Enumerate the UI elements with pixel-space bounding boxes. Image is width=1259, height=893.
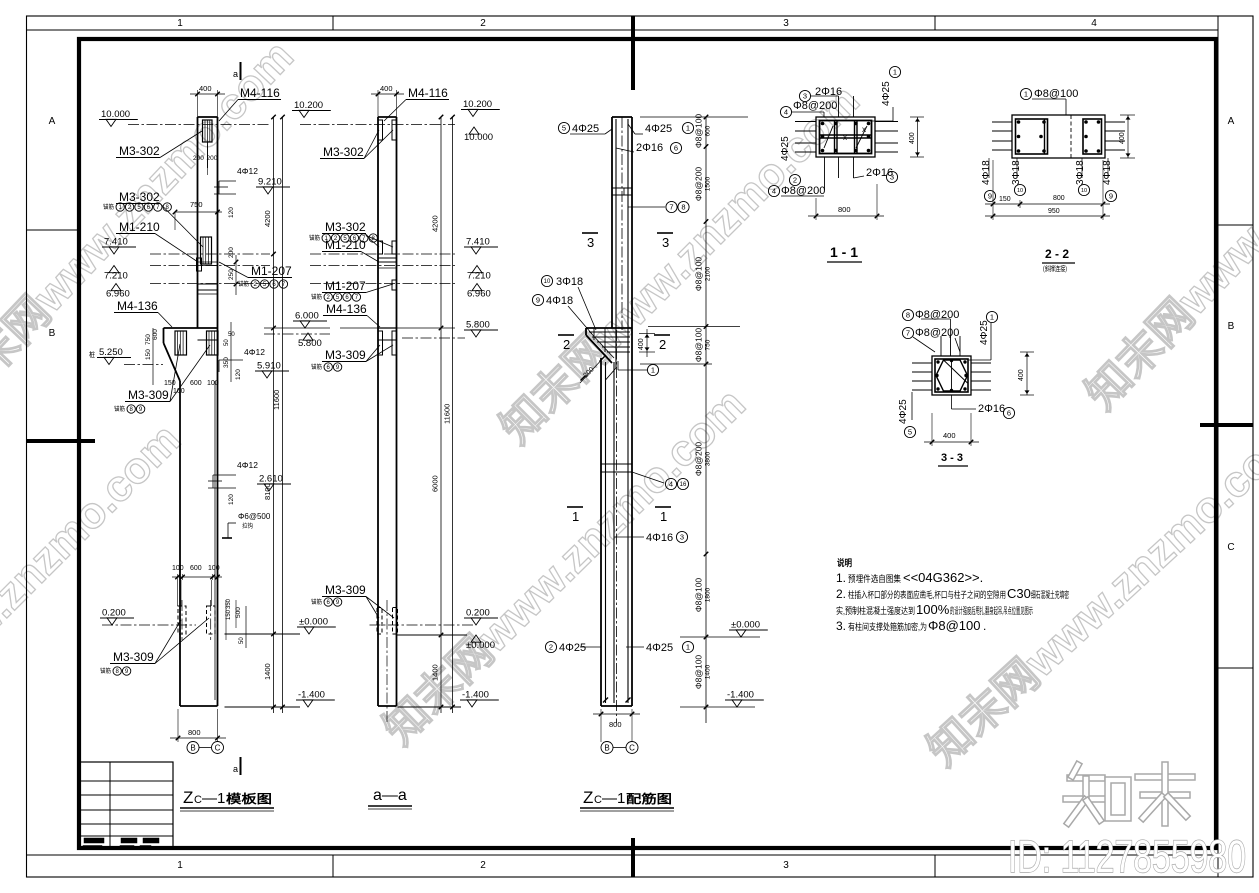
- svg-text:A: A: [49, 116, 56, 127]
- svg-text:120: 120: [228, 494, 235, 505]
- svg-text:5.250: 5.250: [99, 347, 123, 358]
- svg-text:3 - 3: 3 - 3: [941, 452, 963, 464]
- view 3 stirrup marks upper: [612, 187, 632, 189]
- svg-text:7.210: 7.210: [104, 271, 128, 282]
- labels 10 3d18, 9 4d18: [541, 275, 552, 286]
- svg-text:M1-210: M1-210: [325, 238, 366, 252]
- leader to bars 4 16: [632, 472, 664, 483]
- elevation 7.410 (view2): [464, 237, 498, 255]
- elevation 5.800 (view2): [464, 320, 498, 338]
- svg-text:10: 10: [544, 279, 551, 285]
- svg-text:1: 1: [651, 366, 655, 375]
- svg-text:ID: 1127855980: ID: 1127855980: [1008, 831, 1246, 882]
- svg-text:100: 100: [208, 565, 220, 572]
- bottom strip dividers: [332, 855, 334, 877]
- svg-text:6.000: 6.000: [295, 311, 319, 322]
- svg-text:50: 50: [239, 637, 245, 644]
- view 2 plate at M1-207: [392, 280, 397, 290]
- section 1-1 rebar dots: [821, 122, 825, 126]
- view 1 band at 7.210: [198, 261, 218, 263]
- svg-text:7: 7: [906, 329, 910, 338]
- svg-text:1: 1: [177, 18, 183, 29]
- view 3 stirrup marks lower: [601, 463, 632, 465]
- svg-text:4Φ12: 4Φ12: [237, 166, 258, 176]
- svg-text:3.: 3.: [836, 619, 846, 633]
- section 2-2 stirrup left cell: [1016, 119, 1048, 154]
- svg-text:M3-309: M3-309: [325, 348, 366, 362]
- svg-text:M3-302: M3-302: [323, 145, 364, 159]
- label 4 d8@200 top: [780, 106, 791, 117]
- svg-text:4: 4: [772, 187, 776, 196]
- svg-text:5.910: 5.910: [257, 361, 281, 372]
- svg-text:M4-116: M4-116: [408, 86, 448, 100]
- svg-text:1: 1: [572, 509, 579, 524]
- title block table: [79, 762, 173, 849]
- svg-text:4200: 4200: [431, 215, 440, 232]
- leader to bars 7 8: [628, 206, 665, 208]
- M3-309 plates in corbel: [175, 331, 187, 355]
- svg-text:2: 2: [793, 176, 797, 185]
- svg-text:锚筋: 锚筋: [311, 293, 322, 301]
- svg-text:B: B: [1228, 321, 1235, 332]
- svg-text:Φ8@200: Φ8@200: [694, 167, 704, 202]
- elevation 10.200 (view1): [292, 100, 331, 118]
- svg-text:1 - 1: 1 - 1: [830, 244, 858, 260]
- elevation 9.210: [256, 177, 290, 195]
- svg-text:±0.000: ±0.000: [299, 617, 328, 628]
- svg-text:4Φ25: 4Φ25: [572, 123, 599, 135]
- section marks 2-2 on view3: [558, 334, 574, 336]
- top strip dividers: [332, 16, 334, 30]
- svg-text:950: 950: [1048, 208, 1060, 215]
- svg-text:Φ8@100: Φ8@100: [694, 655, 704, 690]
- svg-text:120: 120: [235, 369, 242, 380]
- svg-text:M3-309: M3-309: [128, 388, 169, 402]
- svg-text:锚筋: 锚筋: [238, 280, 249, 288]
- section 3-3 concrete outline: [932, 356, 971, 395]
- svg-text:1400: 1400: [431, 664, 440, 681]
- svg-text:1: 1: [990, 313, 994, 322]
- svg-text:9: 9: [988, 192, 992, 201]
- svg-text:4Φ25: 4Φ25: [979, 320, 990, 345]
- svg-text:4200: 4200: [263, 210, 272, 227]
- svg-text:2100: 2100: [705, 266, 712, 281]
- svg-text:2.610: 2.610: [259, 474, 283, 485]
- axis bubbles B C (view3): [613, 747, 626, 749]
- svg-text:模板图: 模板图: [226, 791, 272, 806]
- svg-text:7: 7: [669, 203, 673, 212]
- svg-text:3Φ18: 3Φ18: [556, 276, 583, 288]
- elevation 10.000 (view2): [464, 127, 493, 143]
- svg-text:3800: 3800: [705, 451, 712, 466]
- view 1 bottom 800 dim: [177, 709, 179, 742]
- view 3 bottom arrows: [603, 698, 608, 703]
- svg-text:Z: Z: [583, 788, 593, 807]
- svg-text:5: 5: [908, 428, 912, 437]
- svg-text:4Φ25: 4Φ25: [881, 81, 892, 106]
- svg-text:Φ8@200: Φ8@200: [781, 185, 825, 197]
- svg-text:4Φ18: 4Φ18: [546, 295, 573, 307]
- svg-text:2Φ16: 2Φ16: [636, 142, 663, 154]
- svg-text:50: 50: [228, 332, 235, 338]
- svg-text:2: 2: [563, 337, 570, 352]
- svg-text:1: 1: [686, 124, 690, 133]
- svg-text:±0.000: ±0.000: [731, 620, 760, 631]
- svg-text:600: 600: [190, 565, 202, 572]
- section 1-1 dim 800: [815, 198, 817, 220]
- svg-text:C30: C30: [1007, 586, 1031, 601]
- view 1 corbel small dims 750/600/150: [152, 328, 154, 385]
- svg-text:600: 600: [190, 380, 202, 387]
- svg-text:400: 400: [199, 84, 212, 93]
- svg-text:10: 10: [1017, 188, 1023, 194]
- svg-text:.: .: [983, 619, 986, 633]
- svg-text:9: 9: [1109, 192, 1113, 201]
- section 3-3 rebar dots: [936, 360, 939, 363]
- svg-text:10: 10: [1081, 188, 1087, 194]
- svg-text:M3-302: M3-302: [325, 220, 366, 234]
- svg-text:350: 350: [223, 357, 230, 368]
- svg-text:的设计强度后甩扎,翻身起吊,吊点位置见图示: 的设计强度后甩扎,翻身起吊,吊点位置见图示: [950, 605, 1033, 616]
- svg-text:有柱间支撑处箍筋加密,为: 有柱间支撑处箍筋加密,为: [848, 621, 927, 632]
- svg-text:2.: 2.: [836, 587, 846, 601]
- svg-text:400: 400: [1018, 369, 1025, 381]
- svg-text:3: 3: [783, 18, 789, 29]
- svg-text:—1: —1: [602, 790, 625, 807]
- svg-text:1: 1: [660, 509, 667, 524]
- svg-text:-1.400: -1.400: [727, 690, 754, 701]
- view 2 centerline: [386, 600, 388, 722]
- svg-text:细石混凝土充填密: 细石混凝土充填密: [1031, 589, 1069, 600]
- svg-text:Φ8@100: Φ8@100: [694, 578, 704, 613]
- view 1 dim chain vertical lines: [273, 117, 275, 713]
- svg-text:3: 3: [587, 235, 594, 250]
- view 1 corbel: [164, 327, 218, 329]
- svg-text:Φ8@100: Φ8@100: [694, 257, 704, 292]
- svg-text:1: 1: [686, 643, 690, 652]
- svg-text:100: 100: [207, 380, 219, 387]
- svg-text:—1: —1: [202, 790, 225, 807]
- svg-text:200: 200: [207, 155, 218, 162]
- section marks 3-3 on view3: [582, 232, 598, 234]
- svg-text:B: B: [190, 743, 195, 752]
- elevation 0.200 (view2): [464, 608, 498, 626]
- axis bubbles B C (view1): [199, 747, 211, 749]
- svg-text:±0.000: ±0.000: [466, 640, 495, 651]
- svg-text:600: 600: [705, 125, 712, 136]
- section 3-3 extension legs: [912, 362, 932, 364]
- svg-text:400: 400: [638, 338, 645, 350]
- label 3 2d16 top: [799, 90, 810, 101]
- svg-text:M4-136: M4-136: [117, 299, 158, 313]
- svg-text:Φ8@100: Φ8@100: [928, 618, 981, 633]
- svg-text:6000: 6000: [431, 475, 440, 492]
- view 2 plates at M3-302 level: [378, 241, 383, 254]
- section 3-3 stirrup: [935, 359, 968, 392]
- right strip dividers: [1218, 224, 1253, 226]
- svg-text:预埋件选自图集: 预埋件选自图集: [848, 573, 901, 584]
- svg-text:C: C: [629, 743, 635, 752]
- svg-text:桩: 桩: [89, 350, 95, 359]
- label 2d16 6: [951, 395, 953, 409]
- svg-text:200: 200: [193, 155, 204, 162]
- svg-text:M1-210: M1-210: [119, 220, 160, 234]
- svg-text:750: 750: [145, 334, 152, 345]
- svg-text:4Φ18: 4Φ18: [1102, 160, 1113, 185]
- svg-text:800: 800: [1053, 195, 1065, 202]
- svg-text:2: 2: [549, 643, 553, 652]
- section 2-2 dashed centerline: [1070, 115, 1072, 158]
- svg-text:拉钩: 拉钩: [242, 522, 253, 530]
- svg-text:800: 800: [188, 728, 201, 737]
- svg-text:柱插入杯口部分的表面应凿毛,杯口与柱子之间的空隙用: 柱插入杯口部分的表面应凿毛,杯口与柱子之间的空隙用: [848, 589, 1006, 600]
- svg-text:Φ8@100: Φ8@100: [1034, 88, 1078, 100]
- view 2 band at M1-210: [378, 257, 397, 259]
- elevation -1.400 (view2): [460, 690, 499, 708]
- svg-text:2Φ16: 2Φ16: [978, 403, 1005, 415]
- svg-text:1800: 1800: [705, 587, 712, 602]
- svg-text:4Φ12: 4Φ12: [244, 347, 265, 357]
- svg-text:50: 50: [224, 339, 230, 346]
- svg-text:a: a: [233, 69, 238, 79]
- svg-text:750: 750: [705, 339, 712, 350]
- svg-text:4Φ25: 4Φ25: [559, 642, 586, 654]
- svg-text:3: 3: [783, 860, 789, 871]
- svg-text:x: x: [843, 133, 847, 142]
- svg-text:a—a: a—a: [373, 787, 407, 804]
- svg-text:3Φ18: 3Φ18: [1011, 160, 1022, 185]
- section 1-1 concrete outline: [816, 117, 875, 157]
- svg-text:9: 9: [536, 296, 540, 305]
- svg-text:0.200: 0.200: [466, 608, 490, 619]
- svg-text:锚筋: 锚筋: [103, 203, 114, 211]
- svg-text:-1.400: -1.400: [298, 690, 325, 701]
- svg-text:10.200: 10.200: [463, 99, 492, 110]
- label 1 below corbel: [617, 361, 619, 370]
- view 2 dim chain lines: [440, 117, 442, 713]
- centering ticks: [631, 16, 635, 90]
- svg-text:<<04G362>>.: <<04G362>>.: [903, 570, 983, 585]
- embedded plate M3-302 mid: [201, 237, 212, 264]
- svg-text:400: 400: [1119, 132, 1126, 144]
- svg-text:150: 150: [226, 609, 232, 620]
- elevation +-0.000 (view2): [466, 635, 495, 651]
- section marks 1-1 on view3: [567, 506, 583, 508]
- svg-text:350: 350: [226, 598, 232, 609]
- view 1 foundation dims 350/500/50: [225, 600, 227, 640]
- svg-text:10.200: 10.200: [294, 100, 323, 111]
- svg-text:150: 150: [145, 349, 152, 360]
- view 2 top corner plates: [378, 120, 383, 140]
- svg-text:4Φ16: 4Φ16: [646, 532, 673, 544]
- svg-text:Z: Z: [183, 788, 193, 807]
- view 1 column outline (Zc-1 formwork): [197, 117, 199, 328]
- elevation 2.610: [257, 474, 291, 492]
- svg-text:5.800: 5.800: [466, 320, 490, 331]
- svg-text:3: 3: [680, 533, 684, 542]
- svg-text:10.000: 10.000: [101, 109, 130, 120]
- svg-text:Φ6@500: Φ6@500: [238, 512, 271, 521]
- svg-text:6.960: 6.960: [467, 289, 491, 300]
- section 2-2 concrete outline: [1012, 115, 1105, 158]
- svg-text:B: B: [49, 328, 56, 339]
- svg-text:Φ8@100: Φ8@100: [694, 328, 704, 363]
- label 1 d8@100 top: [1020, 88, 1031, 99]
- view 3 corbel rebar lines: [589, 331, 630, 333]
- svg-text:1: 1: [893, 68, 897, 77]
- elevation 6.000: [293, 311, 327, 329]
- view 1 level lines: [128, 124, 270, 126]
- svg-text:750: 750: [190, 200, 203, 209]
- view 2 foundation plates dashed: [377, 608, 382, 635]
- label 2 4d25 bottom left: [545, 641, 556, 652]
- svg-text:8100: 8100: [263, 483, 272, 500]
- svg-text:100: 100: [173, 388, 185, 395]
- svg-text:1: 1: [177, 860, 183, 871]
- view 1 step at 5.800: [198, 339, 218, 341]
- svg-text:2: 2: [480, 18, 486, 29]
- section 2-2 dim 400: [1127, 115, 1129, 158]
- section 1-1 stirrup: [820, 121, 872, 154]
- svg-text:4: 4: [1091, 18, 1097, 29]
- svg-text:2: 2: [659, 337, 666, 352]
- title block black marks: [84, 838, 104, 843]
- svg-text:B: B: [604, 743, 609, 752]
- elevation 6.960 (view2): [467, 284, 491, 300]
- view 1 M1-207 plate band: [198, 283, 218, 285]
- svg-text:A: A: [1228, 116, 1235, 127]
- svg-text:锚筋: 锚筋: [309, 234, 320, 242]
- elevation 6.960: [106, 284, 130, 300]
- svg-text:7.210: 7.210: [467, 271, 491, 282]
- left strip dividers: [27, 229, 78, 231]
- svg-text:-1.400: -1.400: [462, 690, 489, 701]
- svg-text:配筋图: 配筋图: [626, 791, 672, 806]
- elevation 10.000: [99, 109, 138, 127]
- svg-text:锚筋: 锚筋: [114, 405, 125, 413]
- svg-text:500: 500: [235, 607, 242, 618]
- svg-text:M3-302: M3-302: [119, 190, 160, 204]
- elevation 7.410: [102, 237, 136, 255]
- elevation 5.800 (view1): [298, 333, 322, 349]
- svg-text:M3-302: M3-302: [119, 144, 160, 158]
- svg-text:1400: 1400: [263, 663, 272, 680]
- svg-text:4Φ25: 4Φ25: [898, 399, 909, 424]
- svg-text:10.000: 10.000: [464, 132, 493, 143]
- view 1 250/200 dims: [235, 255, 237, 295]
- section 2-2 rebar dots: [1017, 120, 1021, 124]
- svg-text:400: 400: [380, 84, 393, 93]
- section 1-1 extension legs: [795, 121, 816, 123]
- svg-text:0.200: 0.200: [102, 608, 126, 619]
- svg-text:M4-136: M4-136: [326, 302, 367, 316]
- svg-text:120: 120: [228, 207, 235, 218]
- svg-text:3: 3: [890, 173, 894, 182]
- corbel 200 skew dim: [580, 355, 606, 383]
- svg-text:锚筋: 锚筋: [100, 667, 111, 675]
- svg-text:锚筋: 锚筋: [311, 363, 322, 371]
- svg-text:x: x: [862, 125, 866, 134]
- svg-text:11600: 11600: [443, 404, 452, 424]
- svg-text:1.: 1.: [836, 571, 846, 585]
- view 1 top 400 dim: [197, 90, 199, 117]
- svg-text:M1-207: M1-207: [251, 264, 292, 278]
- embedded plate M3-302 top: [203, 120, 213, 142]
- znzmo logo (outline): [1070, 774, 1102, 782]
- section 1-1 dim 400: [917, 117, 919, 157]
- section 1-1 cross ties: [824, 126, 833, 148]
- svg-text:7.410: 7.410: [466, 237, 490, 248]
- svg-text:6: 6: [674, 144, 678, 153]
- section 2-2 extension legs: [992, 121, 1012, 123]
- svg-text:16: 16: [680, 482, 687, 488]
- svg-text:C: C: [1227, 542, 1234, 553]
- elevation -1.400 (view1): [296, 690, 335, 708]
- svg-text:4Φ25: 4Φ25: [645, 123, 672, 135]
- svg-text:600: 600: [152, 329, 159, 340]
- embedded plate M1-210: [197, 258, 202, 271]
- svg-text:3: 3: [662, 235, 669, 250]
- view 1 foundation plates M3-309 (dashed): [178, 606, 186, 634]
- svg-text:(斜撑连接): (斜撑连接): [1043, 264, 1067, 273]
- svg-text:4: 4: [784, 108, 788, 117]
- view 3 stirrup dim chain: [705, 117, 707, 723]
- svg-text:4Φ25: 4Φ25: [646, 642, 673, 654]
- svg-text:7.410: 7.410: [104, 237, 128, 248]
- elevation 5.910: [255, 361, 289, 379]
- svg-text:M3-309: M3-309: [113, 650, 154, 664]
- svg-text:200: 200: [228, 247, 235, 258]
- svg-text:锚筋: 锚筋: [311, 598, 322, 606]
- svg-text:Φ8@200: Φ8@200: [793, 100, 837, 112]
- svg-text:6: 6: [1007, 409, 1011, 418]
- view 3 corbel: [586, 327, 632, 329]
- svg-text:5: 5: [562, 124, 566, 133]
- svg-text:M1-207: M1-207: [325, 279, 366, 293]
- section 2-2 dims 150 800 950: [992, 160, 994, 220]
- svg-text:6.960: 6.960: [106, 289, 130, 300]
- section 3-3 hexagonal tie: [936, 360, 968, 391]
- elevation 0.200 (view1): [100, 608, 134, 626]
- view 1 50/50/350 dims near corbel: [230, 322, 232, 382]
- svg-text:400: 400: [943, 431, 956, 440]
- view 2 level lines: [300, 124, 455, 126]
- view 3 rebar bend into corbel: [606, 368, 617, 380]
- svg-text:4: 4: [669, 480, 673, 489]
- svg-text:400: 400: [909, 132, 916, 144]
- svg-text:11600: 11600: [272, 390, 281, 410]
- svg-text:M3-309: M3-309: [325, 583, 366, 597]
- section 2-2 right cell: [1083, 119, 1102, 154]
- svg-text:4Φ18: 4Φ18: [981, 160, 992, 185]
- view 2 column outline (a-a): [377, 117, 379, 706]
- view 3 rebar verticals upper: [615, 119, 617, 368]
- section 3-3 dim 400 right: [1026, 352, 1028, 395]
- svg-text:1: 1: [1024, 90, 1028, 99]
- svg-text:150: 150: [999, 196, 1011, 203]
- svg-text:250: 250: [228, 269, 235, 280]
- view 1 750 dim: [175, 211, 222, 213]
- svg-text:100%: 100%: [916, 602, 950, 617]
- svg-text:2 - 2: 2 - 2: [1045, 247, 1069, 261]
- svg-text:C: C: [215, 743, 221, 752]
- svg-text:8: 8: [681, 203, 685, 212]
- svg-text:800: 800: [609, 720, 622, 729]
- svg-text:5.800: 5.800: [298, 338, 322, 349]
- sheet margin strip lines: [27, 29, 1219, 31]
- svg-text:实,预制柱混凝土强度达到: 实,预制柱混凝土强度达到: [836, 605, 915, 616]
- svg-text:Φ8@100: Φ8@100: [694, 114, 704, 149]
